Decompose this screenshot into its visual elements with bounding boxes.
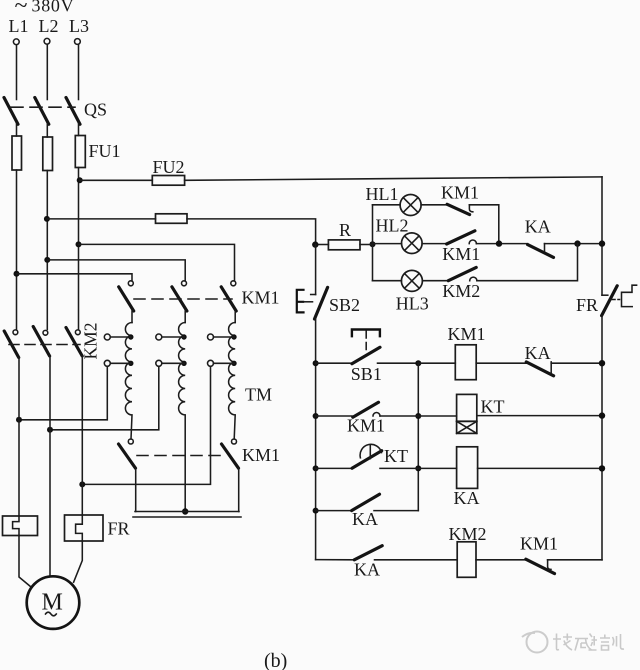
fuse FU1 pole1 [12, 136, 22, 170]
node L2 feed [44, 257, 50, 263]
winding2 tap upper [156, 334, 187, 340]
contactor KM1 upper pole3 [221, 281, 236, 311]
relay contact KA nc blade [528, 245, 554, 258]
wire motor line1 [18, 358, 20, 517]
node branch1/2 [496, 240, 502, 246]
contactor KM2 pole2 [33, 327, 49, 357]
node rung3 left [313, 465, 319, 471]
wire rung5 left [316, 559, 354, 561]
wire branch3 return [477, 244, 578, 281]
node rung1 left [313, 360, 319, 366]
node L2/control fuse [44, 216, 50, 222]
wire L2 feed to KM1 pole2 [47, 260, 185, 281]
wire branch2 to KA [476, 243, 527, 245]
button SB2 actuator [297, 290, 313, 313]
KM1 no rung2 hook [373, 413, 380, 417]
thermal element FR heater1 [3, 516, 38, 536]
relay contact KA nc rung1 blade [526, 362, 553, 376]
svg-text:KM1: KM1 [242, 288, 280, 308]
watermark logo [522, 632, 548, 653]
wire HL3 to KM2 no [422, 280, 448, 282]
KM1 nc rung5 stub [548, 560, 551, 570]
node L1 feed [14, 271, 20, 277]
wire HL1 branch left [373, 204, 401, 206]
svg-text:KM2: KM2 [442, 281, 480, 301]
node motor line1 tap [16, 417, 22, 423]
wire HL1 to KM1 nc [421, 204, 447, 206]
wire HL2 to KM1 no [422, 243, 447, 245]
KM1 lower linkage dashed [137, 455, 222, 457]
svg-text:KT: KT [384, 446, 408, 466]
svg-text:KM1: KM1 [520, 534, 558, 554]
KA nc rung1 stub [550, 362, 552, 373]
left rail lower [315, 319, 317, 560]
wire branch1 to node [469, 205, 498, 244]
svg-text:HL1: HL1 [366, 184, 399, 204]
svg-text:KM1: KM1 [242, 445, 280, 465]
svg-text:M: M [42, 590, 63, 616]
svg-text:FR: FR [576, 295, 598, 315]
node L3 feed [76, 241, 82, 247]
wire L2 to control fuse [47, 218, 156, 220]
wire KA to rail [545, 243, 603, 245]
wire node to KM1 coil [418, 362, 455, 364]
node lamp feed [370, 241, 376, 247]
node branch3 top [574, 240, 580, 246]
star bus line [135, 511, 239, 513]
svg-text:KM2: KM2 [81, 323, 101, 360]
contactor KM2 pole3 [66, 328, 82, 357]
wire SB1 to node [378, 362, 419, 364]
svg-text:L3: L3 [69, 16, 89, 36]
wire KM1 coil to KA nc [476, 362, 526, 364]
KM1 nc branch1 stub [469, 205, 472, 212]
button SB1 stem dashed [365, 331, 367, 352]
switch QS pole 3 blade [66, 98, 80, 125]
node rung3 mid [415, 465, 421, 471]
motor lead 1 [19, 536, 32, 588]
winding1 tap upper [104, 334, 133, 340]
svg-text:HL3: HL3 [396, 294, 429, 314]
wire control fuse to left rail corner [187, 219, 316, 245]
lamp HL1 [400, 195, 421, 216]
wire FU2 to right rail [185, 177, 602, 180]
node rung2 rail [599, 412, 605, 418]
contact KM2 no blade [448, 267, 476, 280]
QS linkage dashed [11, 106, 75, 108]
button SB1 blade [352, 347, 380, 363]
wire KT coil to rail [477, 415, 602, 417]
motor M [27, 576, 80, 629]
node motor line2 tap [47, 427, 53, 433]
svg-text:KM1: KM1 [448, 324, 486, 344]
left rail upper [315, 245, 317, 295]
contactor KM1 lower pole3 [222, 439, 239, 512]
wire L1 drop to QS [16, 45, 18, 100]
svg-text:QS: QS [84, 100, 107, 120]
contact KM1 no rung2 blade [353, 402, 379, 417]
KM1 upper linkage dashed [134, 298, 232, 300]
fuse FU2 lower [156, 214, 188, 224]
node rung1 rail [599, 360, 605, 366]
contact KM1 no branch2 blade [447, 231, 475, 244]
wire rung5 to KM2 coil [375, 559, 458, 561]
terminal L1 [13, 39, 19, 45]
svg-text:L1: L1 [9, 16, 29, 36]
wire motor line3 [81, 356, 83, 515]
svg-text:SB1: SB1 [351, 364, 382, 384]
right rail FR stub [602, 294, 608, 296]
right rail upper [601, 177, 603, 295]
svg-text:R: R [339, 220, 351, 240]
svg-text:KM1: KM1 [441, 182, 479, 202]
wire rung3 left [316, 467, 352, 469]
svg-text:KA: KA [454, 488, 480, 508]
button SB2 blade [315, 287, 328, 319]
node rung2 mid [415, 413, 421, 419]
contactor KM1 upper pole2 [172, 281, 187, 311]
FR contact dash [611, 299, 620, 301]
wire rung2 left [316, 415, 352, 417]
wire QS to FU1 pole3 [78, 124, 80, 136]
contact KM1 nc rung5 blade [526, 559, 555, 573]
svg-text:KA: KA [354, 560, 380, 580]
winding2 tap lower [156, 360, 187, 366]
wire L3 bus [78, 168, 80, 330]
svg-text:FR: FR [108, 519, 130, 539]
KA nc stub [544, 244, 546, 252]
wire rung5 to rail [548, 559, 602, 561]
wire KM2 coil to KM1 nc [476, 559, 526, 561]
contact KT delayed blade [352, 451, 382, 469]
fuse FU1 pole2 [43, 137, 53, 171]
wire rung1 left [316, 362, 352, 364]
fuse FU1 pole3 [75, 136, 85, 168]
KM1 no branch2 hook [469, 240, 476, 244]
svg-text:FU1: FU1 [89, 141, 121, 161]
terminal L3 [75, 39, 81, 45]
terminal L2 [44, 38, 50, 44]
wire rung4 left [316, 510, 351, 512]
node motor line3 tap [79, 481, 85, 487]
wire L3 feed to KM1 pole3 [79, 244, 235, 281]
coil KM2 [457, 542, 476, 578]
KT delay arc [360, 444, 381, 458]
node rung4 left [313, 508, 319, 514]
svg-text:KT: KT [481, 396, 505, 416]
node L3/FU2 [77, 177, 83, 183]
coil KA [457, 447, 478, 489]
coil KT [457, 394, 477, 433]
svg-text:KA: KA [352, 509, 378, 529]
left rail with node [312, 241, 318, 247]
transformer TM winding 1 [125, 311, 132, 439]
relay contact KA no rung5 blade [354, 546, 382, 560]
transformer TM winding 2 [179, 311, 186, 511]
node lamp rail [599, 240, 605, 246]
wire L1 bus [16, 170, 18, 330]
winding3 tap upper [208, 334, 237, 340]
motor lead 3 [74, 541, 83, 582]
svg-text:KM1: KM1 [347, 415, 385, 435]
button SB1 cap [352, 330, 380, 338]
node star point [182, 508, 188, 514]
wire HL3 branch left [373, 280, 402, 282]
wire L1 feed to KM1 pole1 [17, 274, 133, 281]
contactor KM2 pole1 [4, 330, 19, 358]
wire KA coil to rail [478, 467, 602, 469]
wire rung3 to KA coil [380, 467, 457, 469]
star bus underline [133, 516, 241, 518]
svg-text:SB2: SB2 [329, 295, 360, 315]
mid vertical [417, 363, 419, 510]
KM2 linkage dashed [9, 344, 80, 346]
FR contact bracket [622, 285, 637, 306]
wire L3 drop to QS [78, 45, 80, 100]
contactor KM1 lower pole1 [119, 439, 136, 512]
relay contact KA no rung4 blade [352, 494, 380, 510]
svg-text:L2: L2 [39, 16, 59, 36]
svg-text:KA: KA [525, 343, 551, 363]
wire rung4 to mid vertical [374, 510, 418, 512]
KM2 no hook [470, 277, 477, 281]
resistor R [316, 240, 373, 250]
wire L2 bus [46, 171, 48, 330]
coil KM1 [455, 345, 476, 380]
winding3 tap lower [208, 360, 237, 366]
switch QS pole 1 blade [4, 98, 18, 125]
wire tap1 to motor line1 [19, 366, 107, 420]
node rung3 rail [599, 465, 605, 471]
fuse FU2 upper [152, 176, 184, 186]
svg-text:KM1: KM1 [442, 244, 480, 264]
button SB2 stub [311, 294, 316, 296]
wire QS to FU1 pole2 [46, 124, 48, 137]
wire rung2 to KT coil [380, 415, 457, 417]
right rail lower [601, 316, 603, 560]
contact KM1 nc branch1 blade [447, 204, 470, 214]
svg-text:KM2: KM2 [449, 524, 487, 544]
wire L2 drop to QS [46, 44, 48, 99]
svg-text:KA: KA [525, 217, 551, 237]
contactor KM1 upper pole1 [119, 281, 134, 311]
wire motor line2 [49, 356, 51, 577]
svg-text:HL2: HL2 [376, 216, 409, 236]
transformer TM winding 3 [229, 311, 236, 439]
switch QS pole 2 blade [35, 98, 49, 125]
lamp HL2 [402, 233, 423, 254]
thermal contact FR blade [602, 286, 618, 316]
wire KA to rail [551, 362, 602, 364]
thermal element FR heater2 [65, 515, 104, 541]
winding1 tap lower [104, 360, 133, 366]
lamp HL3 [401, 270, 422, 291]
wire HL2 branch left [373, 243, 402, 245]
watermark text [553, 634, 624, 651]
wire L3 to FU2 [80, 179, 153, 181]
wire tap2 to motor line2 [50, 366, 159, 430]
wire QS to FU1 pole1 [16, 124, 18, 136]
svg-text:TM: TM [245, 385, 272, 405]
svg-text:(b): (b) [264, 650, 287, 670]
label ~380V [15, 0, 75, 19]
node rung1 mid [415, 360, 421, 366]
svg-text:FU2: FU2 [153, 157, 185, 177]
svg-text:380V: 380V [32, 0, 75, 16]
node rung2 left [313, 413, 319, 419]
wire tap3 to motor line3 [82, 366, 210, 484]
lamp branch vertical [372, 205, 374, 281]
